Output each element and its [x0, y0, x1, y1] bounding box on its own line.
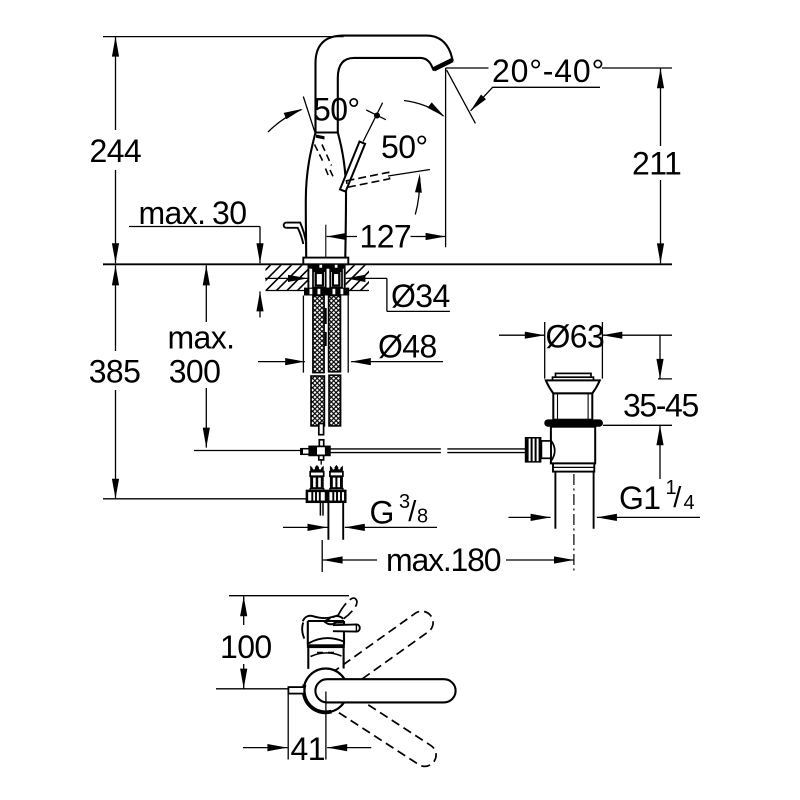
- escutcheon base: [303, 258, 348, 265]
- svg-text:244: 244: [90, 133, 142, 169]
- arc arrow swivel: [404, 101, 445, 117]
- svg-text:100: 100: [220, 629, 272, 665]
- dimension 20-40 degree aerator angle: [447, 53, 606, 123]
- drain body upper: [553, 393, 592, 419]
- shank hole walls: [303, 296, 348, 373]
- svg-text:Ø34: Ø34: [391, 278, 450, 314]
- valve body circle: [304, 669, 348, 713]
- dimension G1 1/4: [509, 477, 701, 521]
- pop-up rod hook lever: [284, 223, 307, 244]
- dimension 385: [89, 265, 306, 498]
- dimension 50 degree upper: [268, 91, 360, 132]
- spout joint line: [316, 133, 338, 140]
- dimension diameter 48: [258, 329, 443, 366]
- svg-text:8: 8: [417, 506, 428, 528]
- drain centerline: [573, 474, 575, 571]
- dimension 35-45: [603, 335, 699, 479]
- drain tailpipe: [555, 472, 593, 529]
- svg-text:41: 41: [291, 731, 325, 767]
- dimension 50 degree lower: [381, 129, 428, 215]
- svg-text:Ø48: Ø48: [378, 329, 437, 365]
- drain plug cap: [553, 373, 594, 380]
- dashed knob rotated: [325, 598, 357, 621]
- handle lever lowered dashed: [347, 170, 431, 188]
- svg-text:max.180: max.180: [386, 542, 501, 578]
- rod coupler block: [301, 446, 330, 464]
- connection nuts G3/8: [307, 491, 345, 502]
- wire: faucet centerline extension: [325, 225, 327, 258]
- top view pop-up rod: [288, 687, 304, 694]
- svg-text:G1: G1: [619, 480, 661, 516]
- mounting shank top gasket: [308, 265, 346, 269]
- dimension max.180: [322, 540, 574, 578]
- horizontal pop-up linkage rod: [330, 449, 526, 453]
- drain knurled knob: [525, 437, 551, 463]
- svg-text:385: 385: [89, 353, 141, 389]
- svg-text:4: 4: [684, 492, 695, 514]
- spout aerator face: [434, 60, 453, 69]
- svg-text:/: /: [408, 496, 417, 528]
- svg-text:30: 30: [212, 195, 246, 231]
- hose end connector left: [310, 465, 324, 491]
- node: countertop deck line: [103, 263, 672, 265]
- deck hatching: [266, 265, 370, 290]
- drain o-ring seal: [544, 419, 603, 426]
- faucet body outline: [306, 133, 346, 258]
- dimension 211 outlet height: [632, 68, 681, 263]
- shank walls: [308, 269, 344, 288]
- svg-text:211: 211: [632, 145, 681, 181]
- dimension max.30 deck thickness: [129, 195, 264, 318]
- braided hoses lower: [311, 375, 341, 426]
- dimension 100: [216, 596, 349, 689]
- wire: spout tip extension line: [445, 68, 447, 247]
- drain flange: [546, 380, 600, 393]
- dimension max.300 hose depth: [168, 265, 301, 450]
- handle lever raised: [340, 103, 386, 192]
- dimension 127 spout reach: [327, 218, 446, 254]
- top view band: [307, 644, 345, 648]
- cartridge dashed lines: [315, 145, 334, 178]
- pop-up rod lower tube: [319, 424, 324, 447]
- handle solid position: [315, 679, 455, 702]
- pop-up rod segments: [325, 308, 327, 346]
- svg-text:127: 127: [360, 218, 412, 254]
- svg-text:50°: 50°: [381, 129, 428, 165]
- hose end connector right: [330, 465, 343, 491]
- svg-text:/: /: [673, 482, 682, 514]
- drain nut: [553, 463, 594, 471]
- svg-text:max.: max.: [139, 195, 206, 231]
- dimension diameter 34: [265, 275, 450, 314]
- top view body column: [308, 648, 343, 669]
- spout outline inner: [338, 58, 434, 133]
- wire: 211 top reference: [446, 67, 672, 69]
- dimension diameter 63: [499, 318, 672, 378]
- wire: top reference line 244: [103, 36, 344, 38]
- dimension 244: [90, 37, 142, 264]
- handle dashed position up: [311, 607, 438, 706]
- supply hose channels: [313, 269, 342, 288]
- left tail pipe: [320, 502, 323, 516]
- svg-text:G: G: [370, 495, 394, 531]
- svg-text:max.: max.: [168, 320, 235, 356]
- svg-text:300: 300: [169, 353, 221, 389]
- drain body lower: [551, 427, 595, 464]
- right tail pipe G3/8: [328, 502, 343, 540]
- dimension 41: [243, 692, 371, 768]
- svg-text:35-45: 35-45: [623, 388, 698, 424]
- dimension G3/8: [283, 491, 437, 531]
- mounting nut: [304, 288, 349, 296]
- handle dashed position down: [311, 676, 440, 771]
- braided hoses upper: [313, 296, 341, 373]
- spout outline outer: [316, 36, 453, 133]
- svg-text:Ø63: Ø63: [546, 318, 605, 354]
- svg-text:50°: 50°: [313, 91, 360, 127]
- top view side knob: [333, 623, 360, 632]
- svg-text:20°-40°: 20°-40°: [492, 53, 605, 89]
- top view spout tip: [302, 616, 344, 645]
